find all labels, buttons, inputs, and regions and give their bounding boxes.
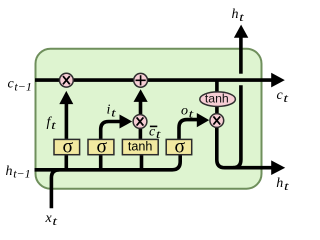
- wire: arrow x3 up to plus: [139, 102, 143, 115]
- wire: arrow sigma1 up to x1: [65, 103, 69, 139]
- svg-text:ft: ft: [47, 115, 57, 132]
- svg-text:ht: ht: [276, 176, 289, 193]
- svg-text:tanh: tanh: [205, 92, 229, 106]
- wire: sigma1 down connector: [65, 155, 69, 170]
- svg-text:ct−1: ct−1: [8, 77, 32, 94]
- tanh oval: [200, 92, 236, 107]
- svg-text:σ: σ: [62, 137, 73, 158]
- gate sigma1 (forget gate): [54, 139, 80, 154]
- arrowhead h_t top output: [234, 25, 248, 38]
- gate sigma4 (output gate): [166, 139, 192, 154]
- wire: h branch going up (below c line crossing): [233, 85, 241, 167]
- svg-text:ht: ht: [232, 7, 245, 24]
- svg-text:σ: σ: [97, 137, 108, 158]
- svg-text:σ: σ: [175, 137, 186, 158]
- svg-text:it: it: [107, 103, 117, 120]
- wire: tanh-gate down connector: [140, 155, 144, 170]
- wire: x_t input joining h line: [51, 170, 59, 209]
- operator plus (cell update add): [134, 73, 148, 87]
- svg-text:tanh: tanh: [128, 140, 153, 154]
- wire: h branch going up (above c line crossing, gap at crossing): [239, 37, 243, 73]
- wire: cell state line c (horizontal top): [35, 78, 272, 82]
- svg-text:ot: ot: [181, 103, 194, 120]
- wire: tanh oval down to x2: [215, 106, 219, 114]
- arrowhead h_t right output: [271, 160, 285, 175]
- wire: arrow sigma2 right to x3 (i_t): [101, 122, 121, 140]
- gate sigma2 (input gate): [88, 139, 114, 154]
- arrowhead c_t output: [271, 73, 285, 88]
- wire: output of x2 down and right to h_t (right): [217, 124, 272, 168]
- operator x1 (forget multiply): [60, 73, 74, 87]
- gate tanh (candidate): [122, 139, 158, 154]
- wire: x3 down to tanh gate: [139, 129, 143, 140]
- wire: h input line (bottom, h_t-1 into gates): [35, 155, 181, 170]
- svg-text:xt: xt: [45, 211, 58, 228]
- LSTM cell body: [36, 49, 262, 189]
- operator x3 (input multiply): [133, 115, 147, 129]
- wire: sigma2 down connector: [99, 155, 103, 170]
- svg-text:ct: ct: [277, 88, 289, 105]
- wire: c line branch down to tanh oval: [215, 80, 219, 92]
- operator x2 (output multiply): [210, 114, 224, 128]
- svg-text:ht−1: ht−1: [6, 164, 31, 181]
- wire: arrow sigma4 right to x2 (o_t): [179, 120, 198, 140]
